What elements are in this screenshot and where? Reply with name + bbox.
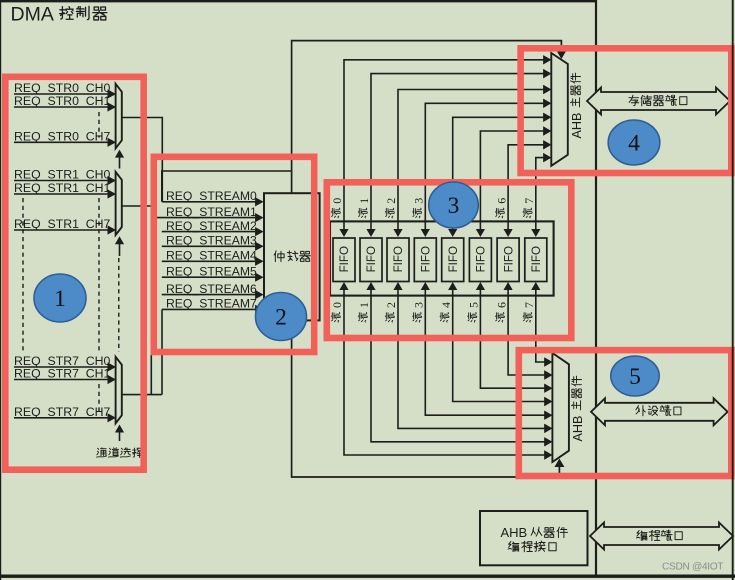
wire mux1 output to bus <box>122 206 151 395</box>
svg-text:REQ_STR1_CH7: REQ_STR1_CH7 <box>14 217 111 231</box>
svg-text:CSDN @4IOT: CSDN @4IOT <box>662 561 723 572</box>
svg-text:6: 6 <box>494 198 508 204</box>
wire arbiter to AHB master 2 <box>292 320 565 477</box>
svg-text:7: 7 <box>522 198 536 204</box>
highlight box 5 <box>519 350 732 476</box>
wire bus riser to REQ_STREAM7 <box>161 309 163 394</box>
svg-text:REQ_STR1_CH1: REQ_STR1_CH1 <box>14 181 111 195</box>
svg-text:FIFO: FIFO <box>392 246 405 272</box>
node REQ_STR1 channel request wires <box>14 168 116 235</box>
svg-text:1: 1 <box>54 286 66 312</box>
node REQ_STREAM0-7 wires into arbiter <box>151 189 263 314</box>
svg-text:FIFO: FIFO <box>502 246 515 272</box>
svg-text:6: 6 <box>494 302 508 308</box>
node REQ_STR0 channel request wires <box>14 81 116 147</box>
wires streams to AHB master 1 <box>344 55 551 221</box>
labels stream 0-7 bottom <box>330 302 536 322</box>
label channel-select <box>97 448 143 458</box>
svg-text:REQ_STREAM7: REQ_STREAM7 <box>166 297 257 311</box>
arbiter box <box>264 193 320 320</box>
callout circle 3 <box>429 182 479 228</box>
svg-text:2: 2 <box>384 302 398 308</box>
title DMA controller <box>11 4 107 26</box>
svg-text:REQ_STREAM4: REQ_STREAM4 <box>166 249 257 263</box>
svg-text:REQ_STR1_CH0: REQ_STR1_CH0 <box>14 168 111 182</box>
svg-text:2: 2 <box>384 198 398 204</box>
svg-text:7: 7 <box>522 302 536 308</box>
svg-text:0: 0 <box>330 198 344 204</box>
svg-text:REQ_STREAM2: REQ_STREAM2 <box>166 219 257 233</box>
mux0 select arrow <box>115 150 124 169</box>
svg-text:3: 3 <box>412 302 426 308</box>
svg-text:2: 2 <box>275 305 287 331</box>
FIFO port arrows <box>339 221 540 295</box>
callout circle 5 <box>611 356 659 396</box>
svg-text:FIFO: FIFO <box>447 246 460 272</box>
svg-text:3: 3 <box>412 198 426 204</box>
svg-text:3: 3 <box>448 193 460 219</box>
svg-text:FIFO: FIFO <box>475 246 488 272</box>
wire mux0 output to REQ_STREAM0 <box>122 118 162 202</box>
highlight box 2 <box>154 157 314 352</box>
svg-text:REQ_STR0_CH7: REQ_STR0_CH7 <box>14 130 111 144</box>
highlight box 4 <box>521 48 732 173</box>
svg-text:AHB: AHB <box>570 113 584 139</box>
svg-text:REQ_STR7_CH1: REQ_STR7_CH1 <box>14 367 111 381</box>
svg-text:FIFO: FIFO <box>420 246 433 272</box>
wires streams to AHB master 2 <box>344 296 552 460</box>
labels stream 0-7 top <box>330 198 536 218</box>
svg-text:1: 1 <box>357 198 371 204</box>
mux channel select stream0 <box>116 84 122 149</box>
svg-text:FIFO: FIFO <box>365 246 378 272</box>
wire REQ_STREAM0 riser to arbiter-AHB line <box>162 171 292 202</box>
wire mux7 output <box>122 394 162 396</box>
callout circle 4 <box>608 120 660 165</box>
programming port arrow <box>590 523 733 550</box>
right frame edge <box>732 0 734 580</box>
mux7 select arrow <box>115 425 124 442</box>
highlight box 3 <box>327 182 572 338</box>
FIFO bank <box>330 221 554 295</box>
watermark <box>662 561 723 572</box>
svg-text:DMA: DMA <box>11 4 54 26</box>
svg-text:REQ_STREAM6: REQ_STREAM6 <box>166 282 257 296</box>
svg-text:REQ_STREAM0: REQ_STREAM0 <box>166 189 257 203</box>
svg-text:REQ_STR7_CH7: REQ_STR7_CH7 <box>14 405 111 419</box>
wire arbiter to AHB master 1 <box>292 41 567 194</box>
highlight box 1 <box>5 77 143 470</box>
svg-text:5: 5 <box>467 302 481 308</box>
callout circle 1 <box>34 274 86 322</box>
svg-text:FIFO: FIFO <box>338 246 351 272</box>
svg-text:FIFO: FIFO <box>530 246 543 272</box>
svg-text:AHB: AHB <box>501 525 528 540</box>
AHB slave programming interface box <box>480 511 588 565</box>
node REQ_STR7 channel request wires <box>14 354 116 422</box>
callout circle 2 <box>256 293 307 341</box>
svg-text:0: 0 <box>330 302 344 308</box>
svg-text:5: 5 <box>629 364 641 390</box>
svg-text:REQ_STREAM5: REQ_STREAM5 <box>166 264 257 278</box>
mux1 select arrow <box>115 236 124 256</box>
memory port arrow <box>587 88 730 115</box>
dashed ellipsis lines <box>23 112 119 412</box>
svg-text:AHB: AHB <box>571 416 585 442</box>
svg-text:1: 1 <box>357 302 371 308</box>
svg-text:4: 4 <box>439 302 453 308</box>
AHB master 1 mux <box>543 53 584 166</box>
svg-text:REQ_STREAM3: REQ_STREAM3 <box>166 234 257 248</box>
svg-text:REQ_STREAM1: REQ_STREAM1 <box>166 205 257 219</box>
AHB master 2 mux <box>544 353 584 462</box>
mux channel select stream7 <box>116 357 122 424</box>
peripheral port arrow <box>591 398 728 425</box>
svg-text:REQ_STR0_CH1: REQ_STR0_CH1 <box>14 94 111 108</box>
mux channel select stream1 <box>116 172 122 235</box>
svg-text:4: 4 <box>628 131 640 157</box>
svg-text:REQ_STR0_CH0: REQ_STR0_CH0 <box>14 81 111 95</box>
